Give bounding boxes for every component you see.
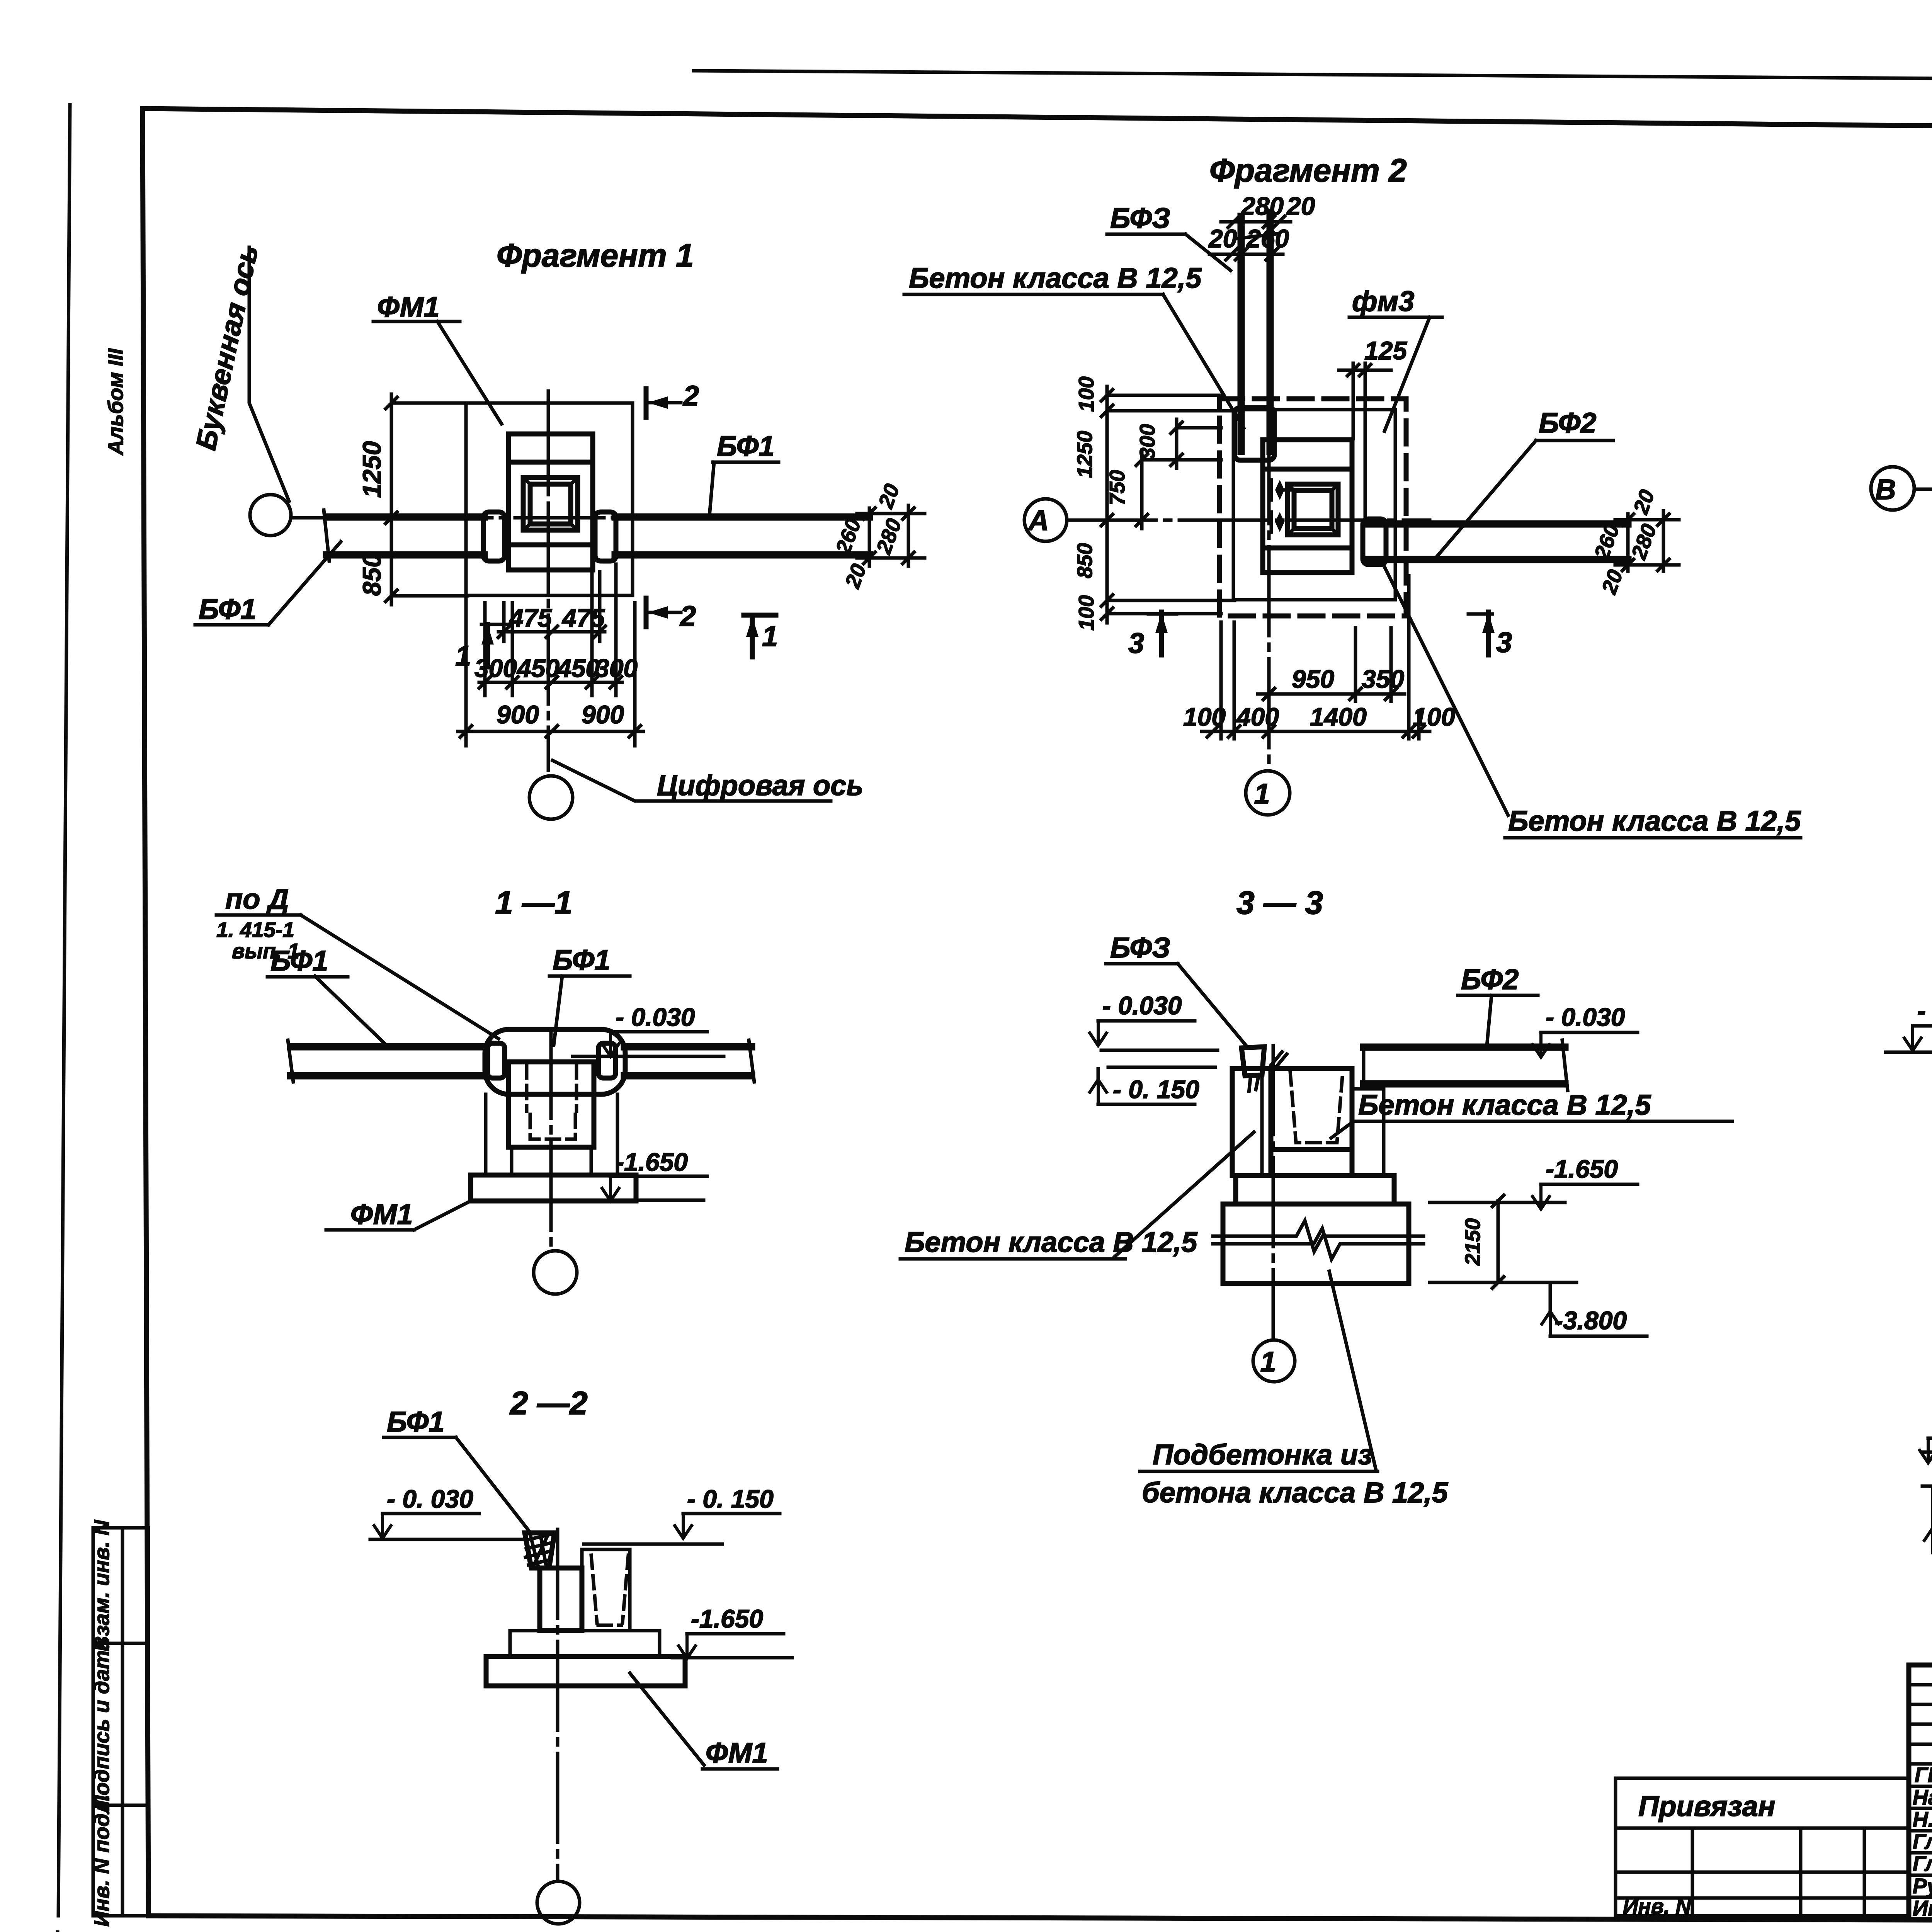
svg-text:Гл.конст.: Гл.конст. xyxy=(1913,1830,1932,1854)
FM1 label xyxy=(630,1673,704,1765)
svg-text:Инв. N подл.: Инв. N подл. xyxy=(90,1794,114,1927)
svg-text:750: 750 xyxy=(1105,470,1129,505)
svg-text:1400: 1400 xyxy=(1310,702,1367,731)
svg-text:100: 100 xyxy=(1413,702,1455,731)
podbetonka label xyxy=(1329,1271,1376,1468)
anchor pocket inner xyxy=(530,484,571,524)
svg-text:фм3: фм3 xyxy=(1352,285,1414,317)
svg-text:2 —2: 2 —2 xyxy=(509,1385,588,1421)
svg-text:- 0.030: - 0.030 xyxy=(1546,1003,1625,1031)
axis 1 vertical dash-dot xyxy=(1267,211,1271,770)
cup xyxy=(1271,1068,1352,1175)
svg-text:-1.650: -1.650 xyxy=(616,1148,688,1176)
svg-text:1250: 1250 xyxy=(357,441,386,498)
svg-text:300: 300 xyxy=(474,654,517,682)
left column xyxy=(1232,1068,1271,1175)
dim extension lines below plan xyxy=(466,564,635,746)
dim 2150 xyxy=(1497,1201,1500,1282)
vertical beam BF3 xyxy=(1238,216,1245,451)
svg-text:400: 400 xyxy=(1236,702,1279,731)
svg-text:по Д: по Д xyxy=(225,883,289,915)
foundation outer square FM1 xyxy=(466,403,633,595)
footing xyxy=(471,1175,636,1201)
svg-text:1: 1 xyxy=(1254,778,1270,810)
svg-text:-1.650: -1.650 xyxy=(1546,1155,1618,1183)
svg-text:300: 300 xyxy=(595,654,638,682)
level -0.150 xyxy=(1108,1066,1215,1069)
right end dims of beam xyxy=(868,508,871,566)
anchor diamond ticks xyxy=(1275,480,1284,500)
svg-text:Цифровая ось: Цифровая ось xyxy=(657,769,863,801)
svg-text:1. 415-1: 1. 415-1 xyxy=(216,918,294,942)
bottom extension lines xyxy=(1221,576,1419,739)
beam pocket left xyxy=(483,512,505,561)
letter axis circle xyxy=(250,495,291,536)
svg-text:Рук.гр.: Рук.гр. xyxy=(1913,1874,1932,1898)
dim 300/450/450/300 xyxy=(479,681,622,684)
svg-text:20: 20 xyxy=(1208,224,1237,253)
svg-text:950: 950 xyxy=(1292,665,1334,693)
section mark 2 top xyxy=(644,389,649,417)
svg-text:Подпись и дата: Подпись и дата xyxy=(90,1638,114,1811)
sheet left margin line xyxy=(58,105,70,1916)
svg-text:БФ1: БФ1 xyxy=(553,944,610,976)
svg-text:Инв. N: Инв. N xyxy=(1623,1894,1692,1918)
svg-text:900: 900 xyxy=(497,700,539,729)
svg-text:Гл.спец: Гл.спец xyxy=(1913,1852,1932,1876)
left dim column 100/1250/850/100 xyxy=(1105,386,1109,623)
svg-text:Нач. АСО: Нач. АСО xyxy=(1913,1785,1932,1809)
hatched beam end xyxy=(525,1533,554,1568)
privyazan table xyxy=(1616,1778,1909,1916)
beams xyxy=(291,1043,486,1051)
svg-text:-1.650: -1.650 xyxy=(691,1604,763,1633)
dim 475/475 xyxy=(498,630,605,634)
svg-text:БФ1: БФ1 xyxy=(199,593,256,625)
svg-text:бетона класса В 12,5: бетона класса В 12,5 xyxy=(1142,1476,1449,1509)
svg-text:2: 2 xyxy=(679,600,696,632)
svg-text:ФМ1: ФМ1 xyxy=(706,1737,768,1769)
svg-text:2150: 2150 xyxy=(1461,1218,1485,1266)
svg-text:Фрагмент 1: Фрагмент 1 xyxy=(497,237,694,274)
svg-text:- 0. 030: - 0. 030 xyxy=(387,1485,473,1513)
bottom slab xyxy=(1223,1204,1409,1284)
svg-text:1: 1 xyxy=(1260,1346,1276,1378)
svg-text:- 0. 150: - 0. 150 xyxy=(687,1485,774,1513)
paper edge line top xyxy=(694,71,1932,83)
svg-text:450: 450 xyxy=(556,654,600,682)
right beam pocket xyxy=(1363,519,1386,565)
svg-text:В: В xyxy=(1875,473,1896,505)
small beam end on top xyxy=(1242,1047,1264,1076)
dashed cup bottom xyxy=(530,1114,575,1139)
svg-text:1: 1 xyxy=(455,640,471,672)
axis B circle xyxy=(1871,467,1914,510)
top dims of BF3: 280 20 / 20 260 xyxy=(1221,220,1291,224)
axis A circle xyxy=(1024,499,1067,541)
name rows xyxy=(1909,1785,1932,1788)
axis xyxy=(556,1529,560,1881)
beam end pockets xyxy=(488,1043,505,1078)
right beam BF2 xyxy=(1365,520,1628,528)
anchor pocket outer xyxy=(523,478,578,530)
axis A dash-dot horizontal xyxy=(291,516,869,520)
axis A dash-dot xyxy=(1067,519,1430,522)
axis 1 vertical dash-dot xyxy=(547,391,550,770)
mark ‡ xyxy=(1271,1052,1287,1067)
svg-text:БФЗ: БФЗ xyxy=(1110,932,1170,964)
small column xyxy=(540,1568,582,1631)
svg-text:2: 2 xyxy=(682,380,699,412)
level -3.800 xyxy=(1430,1281,1577,1284)
svg-text:-3.800: -3.800 xyxy=(1554,1306,1627,1335)
svg-text:100: 100 xyxy=(1183,702,1226,731)
svg-text:350: 350 xyxy=(1362,665,1404,693)
svg-text:- 0.030: - 0.030 xyxy=(616,1003,695,1031)
svg-text:А: А xyxy=(1027,504,1049,536)
letter axis leader line xyxy=(249,247,289,501)
svg-text:БФ1: БФ1 xyxy=(717,430,774,462)
dim 900/900 xyxy=(458,730,643,733)
svg-text:475: 475 xyxy=(561,604,605,632)
beam BF3 pocket xyxy=(1235,408,1274,460)
svg-text:Привязан: Привязан xyxy=(1638,1790,1776,1822)
svg-text:БФ1: БФ1 xyxy=(270,945,328,977)
svg-text:Инженер: Инженер xyxy=(1913,1896,1932,1920)
svg-text:20: 20 xyxy=(1286,192,1315,220)
svg-text:Фрагмент 2: Фрагмент 2 xyxy=(1209,152,1407,189)
beam BF1 left xyxy=(327,514,484,521)
svg-text:125: 125 xyxy=(1364,336,1407,365)
BF2 beam end dims xyxy=(1626,514,1630,571)
svg-text:Бетон класса В 12,5: Бетон класса В 12,5 xyxy=(1358,1089,1651,1121)
svg-text:БФЗ: БФЗ xyxy=(1110,202,1170,234)
foundation pit dashed rect xyxy=(1219,399,1406,616)
svg-text:1250: 1250 xyxy=(1073,430,1097,478)
svg-text:3: 3 xyxy=(1128,627,1144,659)
svg-text:ГИП: ГИП xyxy=(1915,1763,1932,1787)
svg-text:БФ2: БФ2 xyxy=(1539,407,1596,439)
svg-text:850: 850 xyxy=(1073,543,1097,578)
column outer walls xyxy=(484,1094,488,1175)
step xyxy=(510,1631,660,1656)
digit axis circle and label xyxy=(529,776,573,819)
collar rounded xyxy=(485,1029,625,1094)
svg-text:260: 260 xyxy=(1246,224,1289,253)
cup block xyxy=(509,1062,594,1147)
label Beton class B12.5 bottom-right xyxy=(1381,561,1508,815)
break lines through slab xyxy=(1213,1221,1423,1252)
svg-text:- 0. 150: - 0. 150 xyxy=(1113,1075,1199,1104)
foundation block xyxy=(509,434,593,570)
beam pocket right xyxy=(595,512,616,561)
svg-text:3 — 3: 3 — 3 xyxy=(1236,884,1323,921)
dim 950/350 xyxy=(1258,692,1405,696)
svg-text:100: 100 xyxy=(1074,595,1098,631)
left bottom side table xyxy=(93,1528,148,1916)
svg-text:ФМ1: ФМ1 xyxy=(350,1198,413,1230)
dashed cup xyxy=(591,1555,628,1625)
middle step xyxy=(1236,1175,1394,1204)
svg-text:ФМ1: ФМ1 xyxy=(377,291,439,323)
svg-text:Бетон класса В 12,5: Бетон класса В 12,5 xyxy=(1508,805,1801,837)
dashed inner verticals xyxy=(525,1065,529,1111)
dashed cup xyxy=(1290,1072,1343,1143)
section mark 2 bottom xyxy=(644,598,649,627)
svg-text:Взам. инв. N: Взам. инв. N xyxy=(90,1520,114,1651)
svg-text:900: 900 xyxy=(582,700,624,729)
foundation block FM3 xyxy=(1263,440,1352,573)
svg-text:475: 475 xyxy=(509,604,552,632)
anchor pocket xyxy=(1287,484,1338,535)
svg-text:Альбом ІІІ: Альбом ІІІ xyxy=(104,348,128,456)
vertical dim line left (1250/850) xyxy=(390,394,393,605)
drawing frame xyxy=(143,109,1932,133)
svg-text:Подбетонка из: Подбетонка из xyxy=(1153,1439,1372,1471)
svg-text:Бетон класса В 12,5: Бетон класса В 12,5 xyxy=(905,1226,1198,1258)
svg-text:Н.контр.: Н.контр. xyxy=(1913,1807,1932,1831)
beam BF1 right xyxy=(615,514,869,521)
footing xyxy=(486,1656,685,1686)
svg-text:БФ1: БФ1 xyxy=(387,1406,444,1438)
svg-text:Бетон класса В 12,5: Бетон класса В 12,5 xyxy=(909,262,1202,294)
right block xyxy=(582,1549,630,1631)
right beam BF2 xyxy=(1364,1044,1565,1051)
concrete outer rect xyxy=(1233,410,1395,600)
signature rows text xyxy=(1913,1763,1932,1920)
svg-text:БФ2: БФ2 xyxy=(1461,963,1519,995)
svg-text:1 —1: 1 —1 xyxy=(495,884,573,921)
svg-text:3: 3 xyxy=(1496,626,1512,658)
axis xyxy=(1272,1046,1275,1338)
dim 100/400/1400/100 xyxy=(1202,730,1430,733)
svg-text:850: 850 xyxy=(357,553,386,596)
svg-text:100: 100 xyxy=(1074,376,1098,412)
level -4.780 xyxy=(1922,1485,1932,1488)
right step xyxy=(1352,1089,1384,1175)
axis circle 1 xyxy=(1246,771,1290,815)
section mark 1 right xyxy=(744,613,776,618)
axis xyxy=(549,1029,553,1250)
svg-text:280: 280 xyxy=(1240,192,1284,220)
svg-text:450: 450 xyxy=(516,654,560,682)
top blank rows xyxy=(1909,1683,1932,1687)
svg-text:1: 1 xyxy=(762,620,778,652)
axis B dash-dot xyxy=(1915,488,1932,491)
inner dims 300 / 750 xyxy=(1175,419,1179,468)
svg-text:- 0.030: - 0.030 xyxy=(1102,991,1182,1020)
svg-text:- 0.030: - 0.030 xyxy=(1917,996,1932,1025)
